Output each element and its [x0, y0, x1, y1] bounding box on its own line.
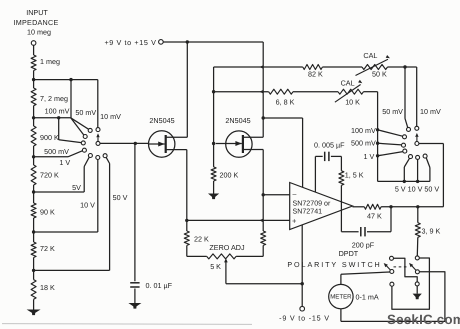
wire 10V down to bar: [417, 160, 419, 182]
meter M1 0-1 mA: [329, 284, 353, 308]
S1 pole: [96, 141, 100, 145]
wire CAL10K to tap line: [364, 91, 378, 93]
wire tap line vertical: [377, 92, 379, 182]
S1 contact 50mV: [88, 128, 92, 132]
svg-text:5 K: 5 K: [210, 262, 221, 271]
S1 pole arrow stem: [97, 137, 99, 141]
DPDT contact left-bottom: [390, 282, 394, 286]
svg-text:10 mV: 10 mV: [420, 107, 441, 116]
+V terminal: [159, 40, 164, 45]
wire to 500 mV contact: [59, 140, 82, 143]
svg-text:0. 01 µF: 0. 01 µF: [146, 281, 173, 290]
wire node D to 5V tap: [34, 191, 85, 193]
S2 contact 10V: [416, 155, 420, 159]
wire meter bottom: [340, 309, 342, 322]
node pole/0.01uF junction: [134, 142, 137, 145]
svg-text:10 V: 10 V: [80, 201, 95, 210]
wire 500mV branch down: [58, 118, 60, 140]
wire op-amp V- down: [301, 225, 303, 307]
svg-text:–: –: [293, 191, 297, 198]
wire down to C3: [134, 143, 136, 281]
svg-text:SN72709 or: SN72709 or: [293, 199, 331, 207]
node V-/zero wiper: [301, 282, 304, 285]
S2 pole arrow stem: [416, 137, 418, 142]
wire left-top to right-bottom cross: [394, 258, 418, 282]
wire Q1 source down: [186, 150, 188, 221]
wire 200pF right: [367, 231, 391, 233]
S2 contact 5V: [409, 155, 413, 159]
wire R to zero rail: [262, 245, 264, 256]
wire meter bottom to right-mid contact: [341, 272, 445, 322]
svg-text:7, 2 meg: 7, 2 meg: [40, 94, 68, 103]
ground (input divider): [27, 310, 41, 316]
svg-text:ZERO ADJ: ZERO ADJ: [209, 243, 245, 252]
DPDT contact left-mid: [390, 270, 394, 274]
DPDT contact right-bottom: [415, 282, 419, 286]
S2 pole: [415, 142, 419, 146]
resistor 1 meg: [31, 55, 36, 71]
resistor 900K: [31, 126, 36, 146]
S2 contact 100mV: [403, 135, 407, 139]
svg-text:-9 V to -15 V: -9 V to -15 V: [279, 314, 330, 323]
wire meter to left-mid contact: [341, 272, 390, 274]
wire meter top: [340, 274, 342, 284]
svg-text:3, 9 K: 3, 9 K: [422, 226, 441, 235]
wire 100mV tap to contact: [378, 130, 403, 136]
wire S2 pole right: [419, 143, 443, 145]
wire from 5V contact: [84, 157, 89, 166]
svg-text:CAL: CAL: [341, 79, 355, 88]
wire 7.2meg to node B: [33, 106, 35, 118]
wire from 50V contact: [106, 157, 109, 163]
svg-text:72 K: 72 K: [40, 244, 55, 253]
svg-text:6, 8 K: 6, 8 K: [276, 97, 295, 106]
wire zero rail left: [187, 255, 207, 257]
svg-text:CAL: CAL: [363, 51, 377, 60]
node 10V on bar: [416, 180, 419, 183]
svg-text:10 mV: 10 mV: [100, 112, 121, 121]
node output/3.9K: [416, 205, 419, 208]
Q1 gate arrow: [158, 142, 164, 147]
node 1V tap: [376, 154, 379, 157]
input terminal: [31, 41, 36, 46]
wire 200pF up to output: [390, 207, 392, 232]
wire output line: [381, 206, 443, 208]
potentiometer CAL 50K: [362, 65, 388, 70]
wire Q1 drain to +V rail: [186, 42, 188, 137]
wire 10V tap vertical: [97, 160, 99, 232]
transistor Q2 2N5045: [216, 131, 252, 157]
node output/200pF: [389, 205, 392, 208]
node 5V on bar: [403, 180, 406, 183]
DPDT contact left-top: [390, 256, 394, 260]
wire node F to 18K: [33, 270, 35, 279]
wire right-top to left-bottom cross: [392, 258, 430, 309]
resistor 1.5K: [339, 171, 344, 186]
svg-text:INPUT: INPUT: [26, 8, 48, 17]
wire pole down to output: [442, 144, 444, 207]
S1 contact 5V: [88, 154, 92, 158]
capacitor 0.005 uF: [324, 152, 326, 161]
node F (72K/18K junction): [32, 269, 35, 272]
wire 5V down to bar: [403, 167, 405, 181]
CAL 10K wiper arrow: [358, 80, 362, 84]
wire 3.9K to DPDT: [416, 237, 419, 256]
svg-text:5V: 5V: [72, 183, 81, 192]
Q1 source stub: [166, 149, 187, 151]
wire op-amp out to 47K: [353, 206, 365, 208]
Q2 source stub: [243, 149, 263, 151]
wire input to R 1meg: [33, 45, 35, 55]
svg-text:POLARITY SWITCH: POLARITY SWITCH: [287, 260, 381, 269]
wire node B to 900K: [33, 118, 35, 126]
wire CAL50K to 10mV drop: [388, 66, 417, 68]
transistor Q1 2N5045: [149, 131, 175, 157]
Q2 gate arrow: [235, 141, 241, 146]
CAL 50K wiper line: [356, 59, 389, 75]
DPDT left wiper arrow: [384, 263, 388, 267]
op-amp U1 SN72709/SN72741: [290, 183, 353, 230]
wire gate to 82K: [214, 66, 303, 68]
wire to 50mV contact (right): [405, 119, 408, 128]
svg-text:1 meg: 1 meg: [40, 57, 60, 66]
wire 82K to CAL pot: [322, 66, 362, 68]
svg-text:1, 5 K: 1, 5 K: [345, 170, 364, 179]
wire 90K to node E: [33, 218, 35, 232]
S1 contact 10mV: [96, 128, 100, 132]
potentiometer CAL 10K: [338, 89, 364, 94]
svg-text:100 mV: 100 mV: [45, 106, 70, 115]
S2 contact 10mV: [415, 126, 419, 130]
svg-text:10 meg: 10 meg: [27, 28, 51, 37]
CAL 50K wiper arrow: [386, 55, 390, 58]
node 500mV tap: [376, 142, 379, 145]
wire 200K to ground: [213, 181, 215, 194]
wire 50V tap vertical: [109, 164, 111, 271]
wire to 50 mV contact: [71, 118, 89, 129]
svg-text:0. 005 µF: 0. 005 µF: [314, 141, 345, 150]
resistor 22K: [184, 231, 189, 245]
resistor 18K: [31, 280, 36, 300]
svg-text:500 mV: 500 mV: [44, 147, 69, 156]
svg-text:100 mV: 100 mV: [351, 126, 376, 135]
wire node B tap (100 mV line): [34, 117, 71, 119]
svg-text:47 K: 47 K: [367, 211, 382, 220]
node rail/Q1 drain: [186, 40, 189, 43]
svg-text:200 K: 200 K: [220, 171, 239, 180]
S1 contact 50V: [103, 154, 107, 158]
wire output to 3.9K: [417, 207, 419, 223]
DPDT contact right-top: [415, 256, 419, 260]
resistor 90K: [31, 203, 36, 218]
wire to 1 V contact: [68, 151, 82, 157]
resistor 200K: [211, 167, 216, 181]
resistor 6.8K: [269, 89, 293, 94]
wire V+ branch: [263, 117, 302, 119]
wire 900K to node C: [33, 146, 35, 157]
wire to 100 mV contact: [71, 118, 84, 135]
wire 50mV branch down: [404, 67, 406, 119]
wire V+ down to op-amp: [302, 118, 304, 187]
wire Q2 source down to -input: [262, 150, 264, 195]
S1 contact 1V: [82, 148, 86, 152]
svg-text:2N5045: 2N5045: [225, 116, 250, 125]
capacitor 0.01 uF: [130, 282, 139, 284]
node D (720K/90K junction): [32, 190, 35, 193]
svg-text:SN72741: SN72741: [293, 208, 323, 216]
wire 22K to zero rail: [186, 245, 188, 256]
potentiometer ZERO ADJ 5K: [207, 254, 236, 259]
svg-text:50 V: 50 V: [113, 193, 128, 202]
wire Q2 gate vertical: [213, 67, 215, 167]
wire wiper down: [225, 262, 227, 284]
wire to 0.005uF: [315, 155, 322, 157]
resistor 82K: [303, 65, 323, 70]
wire node A tap bus: [34, 79, 98, 81]
svg-text:1 V: 1 V: [364, 152, 375, 161]
wire 5-10-50V common bar: [378, 180, 430, 182]
wire +V rail: [163, 41, 263, 43]
wire 500mV tap to contact: [378, 143, 402, 145]
DPDT right wiper arrow: [409, 263, 413, 267]
crossover arrow + input: [259, 219, 263, 223]
S2 contact 50mV: [407, 127, 411, 131]
wire node E to 72K: [33, 232, 35, 242]
crossover arrow upper: [260, 65, 264, 69]
resistor 3.9K: [415, 223, 420, 238]
wire 72K to node F: [33, 258, 35, 271]
svg-text:+: +: [292, 217, 297, 226]
svg-text:22 K: 22 K: [194, 234, 209, 243]
capacitor 200 pF: [360, 227, 362, 236]
CAL 10K wiper line: [335, 85, 361, 103]
node A (1meg/7.2meg junction): [32, 78, 35, 81]
crossover arrow lower: [260, 90, 264, 94]
node gate tee: [212, 142, 215, 145]
svg-text:METER: METER: [330, 294, 352, 301]
node - input: [262, 193, 265, 196]
S1 contact 100mV: [83, 135, 87, 139]
node gate/6.8K line: [212, 90, 215, 93]
svg-text:500 mV: 500 mV: [351, 139, 376, 148]
wire right-bottom to ground: [416, 286, 418, 294]
wire wiper to -V node: [226, 283, 302, 285]
S1 contact 500mV: [81, 141, 85, 145]
ground (200K): [208, 194, 219, 200]
wire bar up to 50V contact: [429, 168, 431, 182]
resistor 47K: [364, 204, 381, 209]
wire S1 pole to Q1 gate: [100, 142, 148, 144]
wire 6.8K to CAL10K: [293, 91, 338, 93]
svg-text:18 K: 18 K: [40, 283, 55, 292]
wire 200pF left: [341, 231, 358, 233]
Q2 drain stub: [243, 136, 263, 138]
svg-text:SeekIC.com: SeekIC.com: [387, 312, 460, 327]
wire 5V tap vertical: [83, 167, 85, 193]
svg-text:900 K: 900 K: [40, 133, 59, 142]
wire 1V tap to contact: [378, 152, 403, 156]
svg-text:0-1 mA: 0-1 mA: [356, 292, 379, 301]
wire node D to 90K: [33, 192, 35, 203]
wire node E to 10V tap: [34, 231, 98, 233]
resistor 72K: [31, 242, 36, 258]
wire + input: [187, 219, 290, 221]
wire rail down to Q2 drain: [262, 42, 264, 137]
svg-text:720 K: 720 K: [40, 171, 59, 180]
wire + node down to 22K: [186, 220, 188, 231]
node V+ branch: [262, 116, 265, 119]
wire gate to 6.8K: [214, 91, 269, 93]
wire to 50V contact: [426, 158, 430, 168]
S2 pole arrowhead: [415, 133, 418, 137]
wire 18K to ground: [33, 299, 35, 309]
DPDT gang dashed link: [394, 266, 408, 268]
S1 contact 10V: [96, 156, 100, 160]
svg-text:1 V: 1 V: [59, 158, 70, 167]
svg-text:82 K: 82 K: [308, 70, 323, 79]
svg-text:50 mV: 50 mV: [382, 107, 403, 116]
S1 pole arrowhead: [96, 133, 99, 137]
wire 10 mV tap down: [97, 80, 99, 128]
DPDT contact right-mid: [415, 270, 419, 274]
-V terminal: [300, 306, 305, 311]
svg-text:+9 V to +15 V: +9 V to +15 V: [104, 38, 156, 47]
wire 720K to node D: [33, 185, 35, 192]
faint scan artifact line: [2, 323, 252, 326]
wire - input: [263, 194, 290, 196]
ground (DPDT): [413, 294, 422, 300]
wire - input down to R: [262, 195, 264, 231]
svg-text:5 V 10 V 50 V: 5 V 10 V 50 V: [395, 184, 440, 193]
wire 10mV branch down: [416, 67, 418, 126]
node 500mV branch: [57, 116, 60, 119]
node B (7.2meg/900K junction): [32, 116, 35, 119]
node C (900K/720K junction): [32, 155, 35, 158]
wire node F to 50V tap: [34, 269, 110, 271]
svg-text:50 K: 50 K: [372, 70, 387, 79]
svg-text:90 K: 90 K: [40, 208, 55, 217]
DPDT right wiper: [411, 265, 416, 270]
zero adj wiper arrow: [224, 258, 228, 262]
svg-text:50 mV: 50 mV: [75, 108, 96, 117]
node E (90K/72K junction): [32, 230, 35, 233]
wire node C to 720K: [33, 157, 35, 165]
svg-text:IMPEDANCE: IMPEDANCE: [14, 18, 59, 27]
svg-text:2N5045: 2N5045: [149, 116, 174, 125]
Q1 drain stub: [166, 136, 188, 138]
wire 1.5K to 200pF line: [340, 185, 342, 231]
wire 1meg to node A: [33, 71, 35, 80]
wire node A to 7.2meg: [33, 80, 35, 88]
wire zero rail right: [236, 255, 263, 257]
S2 contact 1V: [403, 149, 407, 153]
wire 0.005uF to 1.5K: [331, 155, 342, 157]
resistor (Q2 source leg): [261, 231, 266, 245]
svg-text:10 K: 10 K: [345, 98, 360, 107]
wire C3 to ground: [134, 289, 136, 304]
ground (0.01uF): [128, 303, 141, 309]
wire 50mV branch down: [70, 80, 72, 118]
resistor 720K: [31, 165, 36, 185]
wire node C (1V tap): [34, 156, 68, 158]
wire comp pin A: [314, 156, 316, 192]
S2 contact 500mV: [402, 143, 406, 147]
resistor 7.2 meg: [31, 88, 36, 106]
DPDT left wiper: [386, 265, 391, 270]
node 100mV tap: [376, 128, 379, 131]
node 50mV/10mV branch: [403, 65, 406, 68]
wire down to 1.5K: [340, 156, 342, 170]
S2 contact 50V: [423, 154, 427, 158]
node Q1 source / + input: [185, 219, 188, 222]
node on tap bus (50mV branch): [69, 78, 72, 81]
wire from 5V contact (right): [404, 158, 409, 167]
svg-text:DPDT: DPDT: [339, 249, 359, 258]
